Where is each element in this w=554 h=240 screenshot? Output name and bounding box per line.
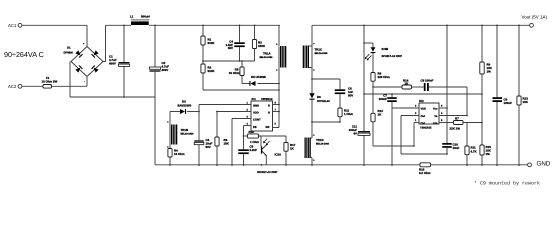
svg-text:IC2: IC2 bbox=[419, 99, 424, 103]
capacitor C9 bbox=[442, 143, 459, 154]
wire fuse to bridge bbox=[52, 77, 88, 86]
svg-text:5: 5 bbox=[441, 119, 443, 122]
diode D6 bbox=[309, 93, 330, 138]
capacitor C7 100nF bbox=[379, 94, 397, 165]
svg-text:Out: Out bbox=[421, 115, 426, 118]
svg-text:D: D bbox=[268, 111, 270, 114]
label IC3A part bbox=[257, 171, 278, 174]
svg-text:-: - bbox=[84, 81, 85, 84]
svg-text:R10: R10 bbox=[249, 130, 255, 134]
capacitor C8 bbox=[421, 78, 434, 91]
snubber C6 bbox=[312, 79, 353, 97]
svg-text:2.2nF: 2.2nF bbox=[250, 148, 258, 152]
svg-text:1 Ohm: 1 Ohm bbox=[250, 140, 259, 144]
resistor R17 bbox=[259, 136, 296, 165]
svg-text:6V: 6V bbox=[353, 131, 357, 135]
wire IC1 drain pins bbox=[273, 105, 280, 128]
svg-text:6: 6 bbox=[441, 112, 443, 115]
svg-text:DF06M: DF06M bbox=[64, 51, 74, 55]
label input voltage bbox=[4, 50, 44, 59]
svg-text:C8 100nF: C8 100nF bbox=[421, 78, 434, 82]
wire drain bbox=[278, 68, 280, 128]
svg-text:TR1A: TR1A bbox=[263, 52, 271, 56]
svg-text:SFH617-A2 X007: SFH617-A2 X007 bbox=[257, 171, 278, 174]
svg-text:BAV21WS: BAV21WS bbox=[178, 104, 192, 108]
svg-text:SFH617-A2 X007: SFH617-A2 X007 bbox=[382, 55, 403, 58]
svg-text:22K 1%: 22K 1% bbox=[450, 127, 461, 131]
svg-text:L1: L1 bbox=[130, 14, 134, 18]
resistor R5 bbox=[229, 61, 244, 84]
wire R14 to C8 bbox=[412, 86, 424, 88]
transformer TR1D bbox=[305, 138, 330, 165]
resistor R12 bbox=[371, 109, 383, 146]
svg-text:TSM101E: TSM101E bbox=[420, 127, 432, 130]
svg-text:50V: 50V bbox=[206, 145, 211, 149]
svg-text:1%: 1% bbox=[487, 70, 492, 74]
svg-text:6.2 Ohm: 6.2 Ohm bbox=[419, 171, 431, 175]
svg-text:IC1: IC1 bbox=[252, 97, 257, 101]
resistor R10 bbox=[244, 130, 260, 144]
svg-text:91 Ohm: 91 Ohm bbox=[229, 71, 240, 75]
node Vout bbox=[522, 15, 548, 27]
resistor R9 bbox=[480, 25, 493, 145]
optocoupler IC3A bbox=[261, 139, 282, 157]
svg-text:+: + bbox=[83, 43, 85, 46]
svg-text:IC3A: IC3A bbox=[275, 153, 282, 157]
svg-text:TR1B: TR1B bbox=[181, 128, 189, 132]
svg-text:220 Ohm: 220 Ohm bbox=[378, 75, 391, 79]
svg-text:500uH: 500uH bbox=[141, 14, 150, 18]
svg-text:5: 5 bbox=[275, 123, 277, 126]
op-amp U IC2 TSM101 bbox=[415, 99, 443, 130]
svg-text:D: D bbox=[268, 104, 270, 107]
wire IC2 vs pin bbox=[439, 115, 467, 117]
wire R10 to opto bbox=[259, 136, 261, 147]
svg-text:8: 8 bbox=[441, 105, 443, 108]
wire IC1 pin VDD bbox=[217, 111, 251, 113]
wire clamp mid bbox=[203, 60, 255, 62]
svg-text:1K: 1K bbox=[290, 147, 295, 151]
svg-text:10 Ohm 2W: 10 Ohm 2W bbox=[42, 80, 58, 84]
resistor R15 bbox=[480, 145, 492, 165]
svg-text:Cat: Cat bbox=[421, 122, 425, 125]
svg-text:GND: GND bbox=[537, 160, 551, 167]
wire opto emitter bbox=[265, 155, 267, 164]
svg-text:100nF: 100nF bbox=[379, 97, 388, 101]
resistor R3 bbox=[252, 25, 265, 61]
resistor R13 bbox=[517, 25, 529, 165]
capacitor C2 bbox=[150, 25, 170, 165]
svg-text:50V: 50V bbox=[348, 93, 353, 97]
wire bridge plus up bbox=[103, 25, 106, 61]
svg-text:Vcc: Vcc bbox=[433, 107, 438, 110]
svg-text:FB: FB bbox=[253, 126, 257, 129]
wire AC1 to bridge bbox=[22, 25, 87, 46]
svg-text:4.7K: 4.7K bbox=[471, 149, 478, 153]
fuse F1 bbox=[42, 76, 58, 88]
svg-text:1: 1 bbox=[415, 119, 417, 122]
wire secondary rail bbox=[312, 24, 530, 26]
wire AC2 to fuse bbox=[22, 85, 43, 87]
wire IC2 lim pin bbox=[439, 122, 454, 124]
wire R12 to IC2 bbox=[373, 123, 414, 147]
wire secondary top bbox=[311, 25, 313, 93]
capacitor C10 bbox=[349, 25, 370, 165]
resistor R2 bbox=[201, 64, 215, 73]
wire IC2 cat pin bbox=[414, 122, 419, 124]
capacitor C4 bbox=[225, 25, 244, 61]
resistor R6 bbox=[215, 112, 230, 165]
svg-text:EEL19-1006: EEL19-1006 bbox=[315, 52, 329, 55]
inductor L1 bbox=[130, 14, 150, 25]
svg-text:910K: 910K bbox=[208, 69, 216, 73]
svg-text:EEL19-1006: EEL19-1006 bbox=[316, 143, 330, 146]
svg-text:90÷264VA C: 90÷264VA C bbox=[4, 50, 44, 59]
resistor R8 bbox=[371, 71, 390, 87]
svg-text:D5 UF4005: D5 UF4005 bbox=[251, 75, 266, 79]
svg-text:EEL19-1006: EEL19-1006 bbox=[181, 133, 195, 136]
capacitor C9 output bbox=[493, 25, 513, 165]
wire IC2 gnd pin bbox=[392, 107, 419, 109]
capacitor C5 bbox=[238, 136, 257, 165]
svg-text:3kV: 3kV bbox=[228, 46, 233, 50]
svg-text:1 Ohm: 1 Ohm bbox=[344, 112, 353, 116]
svg-text:150K: 150K bbox=[258, 44, 266, 48]
svg-text:100uF: 100uF bbox=[504, 101, 513, 105]
note C9 rework bbox=[474, 181, 540, 187]
wire R2 to drain bbox=[203, 73, 279, 90]
resistor R14 bbox=[402, 78, 412, 89]
resistor R12b bbox=[465, 123, 478, 165]
wire IC1 pin GND bbox=[199, 104, 251, 106]
svg-text:Vs: Vs bbox=[434, 115, 438, 118]
resistor R1 bbox=[201, 25, 215, 45]
svg-text:D6: D6 bbox=[317, 95, 321, 99]
svg-text:15K: 15K bbox=[224, 142, 230, 146]
resistor R4 bbox=[168, 149, 185, 165]
svg-text:3: 3 bbox=[415, 112, 417, 115]
svg-text:CONT: CONT bbox=[253, 118, 261, 121]
wire sense line bbox=[364, 93, 482, 95]
svg-text:D1: D1 bbox=[67, 46, 71, 50]
op-amp U IC1 VIPer12 bbox=[247, 97, 277, 131]
svg-text:910K: 910K bbox=[208, 41, 216, 45]
node AC2 bbox=[8, 84, 22, 89]
transformer TR1C bbox=[303, 46, 328, 69]
capacitor C3 bbox=[194, 105, 212, 165]
svg-text:R7: R7 bbox=[455, 117, 459, 121]
svg-text:TR1C: TR1C bbox=[315, 48, 323, 52]
svg-text:VIPER12: VIPER12 bbox=[261, 97, 273, 101]
svg-text:10nF: 10nF bbox=[453, 146, 460, 150]
svg-text:EEL19-1006: EEL19-1006 bbox=[260, 56, 274, 59]
wire ground rail right bbox=[431, 164, 528, 166]
svg-text:1%: 1% bbox=[486, 152, 491, 156]
svg-text:400V: 400V bbox=[162, 68, 169, 72]
svg-text:2: 2 bbox=[415, 105, 417, 108]
wire IC2 vcc pin bbox=[439, 25, 447, 143]
wire ground rail left bbox=[155, 164, 420, 166]
svg-text:VDD: VDD bbox=[253, 111, 259, 114]
svg-text:TR1D: TR1D bbox=[316, 138, 324, 142]
wire C8 right bbox=[429, 87, 467, 116]
bridge rectifier D1 bbox=[64, 43, 104, 84]
wire dc minus rail bbox=[70, 96, 155, 98]
wire IC1 pin FB bbox=[244, 126, 252, 137]
winding pin marks bbox=[167, 43, 314, 161]
capacitor C1 bbox=[109, 25, 130, 97]
svg-text:10K: 10K bbox=[523, 100, 529, 104]
svg-text:IC3B: IC3B bbox=[382, 47, 389, 51]
wire dc plus rail bbox=[106, 24, 281, 26]
svg-text:1K: 1K bbox=[378, 113, 383, 117]
wire feedback bbox=[373, 86, 402, 88]
svg-text:10 Ohm: 10 Ohm bbox=[174, 152, 185, 156]
svg-text:Lim: Lim bbox=[433, 122, 438, 125]
svg-text:VDD: VDD bbox=[421, 107, 427, 110]
svg-text:400V: 400V bbox=[109, 61, 116, 65]
wire IC1 pin CONT bbox=[232, 119, 251, 165]
node AC1 bbox=[8, 23, 22, 28]
resistor R16 bbox=[419, 163, 431, 175]
diode D5 bbox=[242, 75, 279, 86]
wire bridge minus down bbox=[69, 62, 71, 98]
resistor R7 bbox=[450, 117, 483, 131]
wire opto node down bbox=[372, 87, 374, 113]
optocoupler IC3B LED bbox=[364, 43, 403, 73]
transformer TR1A bbox=[260, 46, 287, 68]
svg-text:STPS1L40: STPS1L40 bbox=[317, 100, 330, 103]
wire IC2 out pin bbox=[401, 116, 447, 155]
node GND bbox=[528, 160, 551, 167]
wire R1 to R2 bbox=[202, 45, 204, 64]
svg-text:GND: GND bbox=[253, 104, 259, 107]
svg-text:AC1: AC1 bbox=[8, 23, 17, 28]
svg-text:AC2: AC2 bbox=[8, 84, 17, 89]
svg-text:* C9 mounted by rework: * C9 mounted by rework bbox=[474, 181, 540, 187]
snubber R11 bbox=[312, 94, 353, 122]
svg-text:DR: DR bbox=[266, 126, 270, 129]
diode D3 bbox=[170, 100, 199, 115]
wire primary top bbox=[278, 25, 280, 46]
transformer TR1B bbox=[170, 112, 194, 149]
svg-text:Vout (5V 1A): Vout (5V 1A) bbox=[522, 15, 548, 20]
